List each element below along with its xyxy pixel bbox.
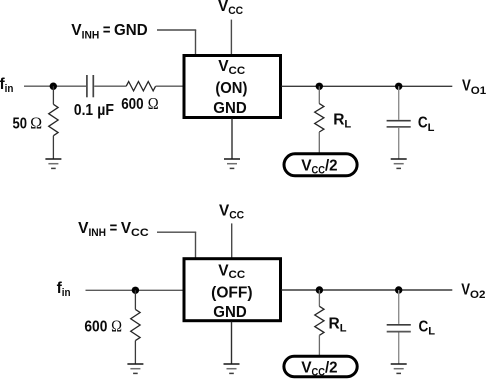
resistor 600 ohm (series, top) <box>126 82 155 91</box>
wire box U1 to ground <box>231 119 233 160</box>
resistor RL (top) <box>315 104 324 132</box>
wire 600 ohm resistor to ground (bottom) <box>134 341 136 364</box>
wire junction down to 50 ohm resistor <box>52 86 54 104</box>
wire fin to junction (bottom) <box>86 289 184 291</box>
junction node output to RL (top) <box>316 83 323 90</box>
capacitor CL (top plate) <box>387 120 411 122</box>
capacitor CL bottom circuit (bottom plate) <box>387 331 411 333</box>
svg-text:GND: GND <box>213 304 246 321</box>
wire VINH horizontal (bottom) <box>157 231 196 233</box>
wire VCC down to box (bottom) <box>231 223 233 258</box>
wire RL to VCC/2 source (bottom) <box>318 335 320 356</box>
capacitor CL (bottom plate) <box>387 126 411 128</box>
capacitor CL bottom circuit (top plate) <box>387 324 411 326</box>
junction node output to CL (top) <box>395 83 402 90</box>
wire VCC down to box <box>230 20 232 55</box>
svg-text:(OFF): (OFF) <box>211 284 252 301</box>
ground (under box U1) <box>224 159 240 168</box>
wire box U1 output to VO1 <box>282 85 453 87</box>
junction node output to RL (bottom) <box>316 286 323 293</box>
resistor 50 ohm <box>49 104 58 135</box>
capacitor 0.1 uF (left plate) <box>86 75 88 97</box>
wire CL to ground (top) <box>398 128 400 159</box>
capacitor 0.1 uF (right plate) <box>92 75 94 97</box>
wire VINH down to box <box>195 30 197 55</box>
resistor 600 ohm (shunt, bottom) <box>131 309 140 340</box>
wire VINH down to box (bottom) <box>195 232 197 258</box>
wire capacitor to 600 ohm resistor <box>94 85 126 87</box>
ground (under box U2) <box>224 364 240 373</box>
wire RL to VCC/2 source (top) <box>318 132 320 153</box>
svg-text:600Ω: 600Ω <box>121 94 158 113</box>
wire junction down to RL (top) <box>318 86 320 103</box>
ground (under CL top) <box>391 159 407 168</box>
wire junction down to 600 ohm resistor (bottom) <box>134 290 136 309</box>
junction node output to CL (bottom) <box>395 286 402 293</box>
ground (under CL bottom) <box>391 364 407 373</box>
wire junction down to CL (bottom) <box>398 290 400 324</box>
wire box U2 to ground <box>231 322 233 364</box>
wire 600 ohm to device box <box>156 85 183 87</box>
wire VINH horizontal <box>157 29 196 31</box>
wire box U2 output to VO2 <box>282 289 453 291</box>
wire 50 ohm resistor to ground <box>52 136 54 159</box>
ground (under 600 ohm) <box>127 364 143 373</box>
device box U2 (OFF) <box>184 259 281 321</box>
source VCC/2 (bottom oval) <box>284 356 357 376</box>
wire junction down to CL (top) <box>398 86 400 120</box>
device box U1 (ON) <box>184 56 281 118</box>
svg-text:GND: GND <box>213 100 246 117</box>
wire CL to ground (bottom) <box>398 333 400 365</box>
junction node A <box>50 83 57 90</box>
junction node B <box>132 287 139 294</box>
svg-text:600Ω: 600Ω <box>84 317 122 336</box>
source VCC/2 (top oval) <box>284 154 357 176</box>
svg-text:(ON): (ON) <box>215 80 247 97</box>
resistor RL (bottom) <box>315 306 324 335</box>
wire fin to junction <box>24 85 86 87</box>
ground (under 50 ohm) <box>45 159 61 168</box>
wire junction down to RL (bottom) <box>318 290 320 306</box>
